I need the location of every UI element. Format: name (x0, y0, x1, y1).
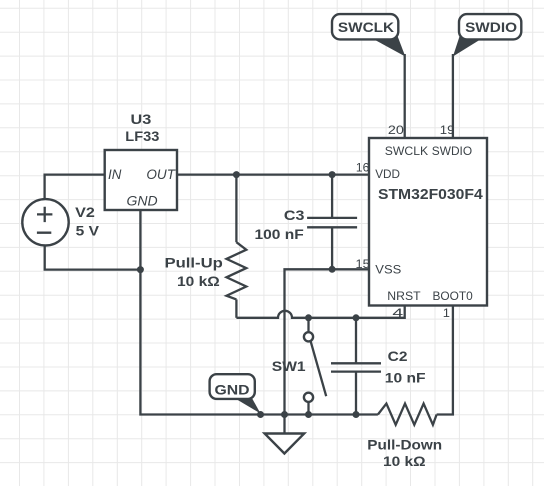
svg-text:V2: V2 (75, 205, 95, 220)
junction VSS/C3 (329, 266, 336, 273)
svg-text:1: 1 (443, 306, 450, 320)
pin number 4 (392, 306, 403, 320)
net flag GND (210, 374, 261, 413)
pin number 15 (356, 257, 370, 271)
capacitor C2 10 nF (331, 318, 381, 415)
wire pull-up top lead (235, 175, 237, 243)
svg-text:SWCLK: SWCLK (338, 20, 394, 35)
svg-text:OUT: OUT (146, 167, 176, 182)
pin number 20 (388, 123, 404, 137)
voltage source V2 (22, 199, 68, 245)
svg-text:10 kΩ: 10 kΩ (383, 453, 426, 469)
svg-text:5 V: 5 V (76, 224, 99, 239)
svg-text:C3: C3 (284, 208, 305, 223)
svg-text:100 nF: 100 nF (255, 227, 304, 242)
net flag SWDIO (453, 14, 521, 56)
junction C2 bottom (353, 411, 360, 418)
junction NRST/C2 (353, 314, 360, 321)
svg-text:NRST: NRST (387, 289, 421, 303)
label C3 100 nF (255, 208, 305, 242)
ground (265, 415, 305, 454)
label SW1 (272, 359, 306, 374)
svg-text:VSS: VSS (375, 262, 401, 276)
junction V2-/LF33 GND (137, 266, 144, 273)
svg-text:SWCLK: SWCLK (385, 144, 429, 158)
svg-text:SWDIO: SWDIO (465, 20, 517, 35)
svg-text:GND: GND (127, 194, 158, 209)
regulator U3 LF33 (105, 150, 177, 210)
svg-text:VDD: VDD (375, 167, 400, 181)
svg-text:Pull-Up: Pull-Up (165, 256, 223, 271)
svg-text:SW1: SW1 (272, 359, 306, 374)
label V2 5 V (75, 205, 99, 239)
junction switch bottom (305, 411, 312, 418)
svg-text:10 nF: 10 nF (385, 370, 426, 385)
resistor Pull-Down 10 kOhm (378, 404, 437, 425)
wire V2- down to GND junction (45, 245, 141, 269)
wire SWDIO flag to pin 19 (452, 54, 454, 138)
junction VDD/pull-up (233, 171, 240, 178)
wire LF33 GND pin down (139, 210, 141, 270)
junction NRST/switch (305, 314, 312, 321)
svg-text:20: 20 (388, 123, 404, 137)
junction ground symbol (281, 411, 288, 418)
junction VDD/C3 (329, 171, 336, 178)
svg-text:SWDIO: SWDIO (432, 144, 472, 158)
svg-text:GND: GND (215, 382, 250, 398)
wire VSS pin 15 left and down to ground rail (285, 269, 370, 414)
label C2 10 nF (385, 349, 426, 385)
pin number 1 (443, 306, 450, 320)
svg-text:Pull-Down: Pull-Down (367, 437, 442, 453)
wire V2+ up to LF33 IN (45, 175, 105, 199)
junction GND flag anchor (257, 411, 264, 418)
wire down to ground rail (140, 270, 378, 415)
pin number 16 (356, 161, 370, 175)
capacitor C3 100 nF (307, 175, 357, 270)
wire SWCLK flag to pin 20 (404, 54, 406, 138)
label U3 LF33 (125, 112, 160, 144)
pin number 19 (440, 123, 455, 137)
label Pull-Down 10 kOhm (367, 437, 442, 470)
wire pull-up bottom lead (235, 299, 237, 317)
svg-text:10 kΩ: 10 kΩ (177, 274, 220, 289)
svg-text:IN: IN (108, 167, 122, 182)
wire LF33 OUT to VDD pin 16 (177, 173, 369, 175)
svg-text:BOOT0: BOOT0 (433, 289, 473, 303)
resistor Pull-Up 10 kOhm (227, 242, 247, 299)
svg-text:4: 4 (392, 306, 403, 320)
IC STM32F030F4 (369, 138, 487, 306)
net flag SWCLK (332, 14, 405, 56)
svg-text:C2: C2 (388, 349, 408, 364)
svg-text:STM32F030F4: STM32F030F4 (378, 187, 484, 203)
svg-text:U3: U3 (131, 112, 152, 127)
wire pull-down to BOOT0 pin 1 (437, 306, 453, 415)
svg-text:15: 15 (356, 257, 370, 271)
svg-text:16: 16 (356, 161, 370, 175)
svg-text:LF33: LF33 (125, 129, 160, 144)
label Pull-Up 10 kOhm (165, 256, 223, 290)
switch SW1 (304, 318, 326, 415)
wire NRST line with hop over VSS wire, up to pin 4 (236, 306, 404, 318)
